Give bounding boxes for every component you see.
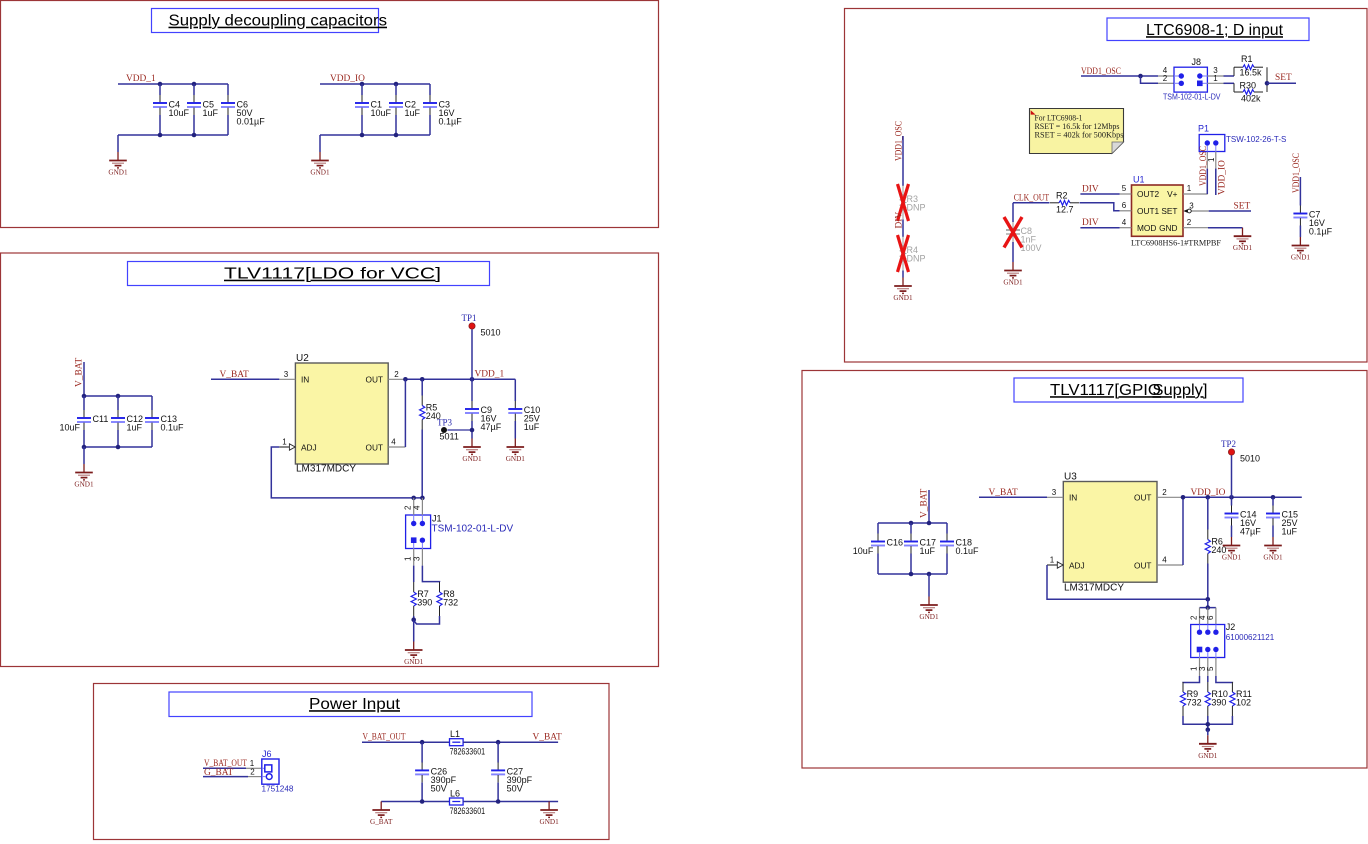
- svg-text:390: 390: [417, 598, 432, 608]
- pin 4 lead: [1198, 608, 1208, 625]
- wire pin2: [203, 776, 248, 778]
- capacitor C6 50V 0.01µF: [221, 84, 265, 135]
- title: TLV1117[GPIO Supply]: [1014, 378, 1243, 402]
- node junctions: [82, 394, 87, 399]
- svg-text:16.5k: 16.5k: [1240, 68, 1263, 78]
- svg-text:1uF: 1uF: [920, 546, 936, 556]
- svg-text:GND1: GND1: [1263, 554, 1283, 562]
- wire branch to pin 2: [1141, 76, 1159, 83]
- pin 2 lead: [248, 767, 262, 776]
- capacitor C3 16V 0.1µF: [423, 84, 462, 135]
- wire VDD1_OSC down: [1299, 177, 1301, 206]
- svg-text:L1: L1: [450, 729, 460, 739]
- wire bottom bus: [118, 134, 228, 136]
- pin 1 V+: [1183, 184, 1208, 194]
- resistor R1 16.5k: [1234, 54, 1263, 78]
- svg-text:DNP: DNP: [907, 203, 926, 213]
- capacitor C1 10uF: [355, 84, 392, 135]
- svg-text:V_BAT: V_BAT: [989, 488, 1018, 498]
- test point TP3 5011: [437, 418, 459, 442]
- svg-text:0.1uF: 0.1uF: [161, 423, 185, 433]
- wire VDD_IO net: [1183, 496, 1302, 498]
- svg-text:1uF: 1uF: [127, 423, 143, 433]
- pin 4 lead: [1158, 66, 1174, 76]
- wire pin1 to R7: [413, 566, 415, 582]
- wire to ground: [902, 271, 904, 278]
- title: LTC6908-1; D input: [1107, 18, 1309, 41]
- inductor L6 782633601: [450, 789, 486, 817]
- region box: TLV1117 GPIO Supply: [802, 371, 1367, 769]
- capacitor C18 0.1uF: [940, 523, 979, 574]
- svg-text:RSET = 402k for 500Kbps: RSET = 402k for 500Kbps: [1035, 130, 1124, 140]
- svg-text:TSM-102-01-L-DV: TSM-102-01-L-DV: [432, 524, 514, 535]
- svg-text:1: 1: [1213, 74, 1218, 83]
- pin 2 lead: [1190, 608, 1200, 625]
- svg-text:MOD: MOD: [1137, 223, 1156, 233]
- svg-text:1: 1: [282, 438, 287, 447]
- svg-text:6: 6: [1122, 201, 1127, 210]
- svg-text:10uF: 10uF: [853, 546, 874, 556]
- svg-text:1751248: 1751248: [262, 785, 295, 794]
- wire VDD1_OSC down: [902, 136, 904, 186]
- svg-text:V_BAT_OUT: V_BAT_OUT: [363, 733, 406, 743]
- svg-text:0.01µF: 0.01µF: [237, 116, 266, 126]
- svg-text:TSM-102-01-L-DV: TSM-102-01-L-DV: [1163, 93, 1221, 102]
- svg-text:0.1uF: 0.1uF: [956, 546, 980, 556]
- capacitor C26 390pF: [415, 742, 457, 801]
- resistor R2 12.7: [1050, 191, 1079, 215]
- capacitor C9 47uF: [465, 379, 502, 438]
- svg-text:0.1µF: 0.1µF: [439, 116, 463, 126]
- wire pin1 jog to R9: [1183, 676, 1200, 683]
- svg-text:VDD_IO: VDD_IO: [1191, 488, 1226, 498]
- wire bottom right: [463, 801, 558, 803]
- capacitor C27 390pF: [491, 742, 533, 801]
- pin 1 lead: [404, 549, 414, 566]
- pin 1 lead: [246, 759, 262, 768]
- ground GND1: [1003, 262, 1023, 287]
- pin 2 OUT lead: [388, 370, 405, 379]
- svg-text:U3: U3: [1064, 472, 1077, 483]
- svg-text:V_BAT: V_BAT: [920, 489, 930, 518]
- svg-text:OUT: OUT: [1134, 493, 1152, 503]
- svg-text:OUT: OUT: [365, 375, 383, 385]
- svg-text:4: 4: [412, 505, 421, 510]
- svg-text:OUT1: OUT1: [1137, 206, 1160, 216]
- svg-text:3: 3: [1189, 202, 1194, 211]
- region box: Power Input: [94, 684, 610, 840]
- svg-text:402k: 402k: [1241, 94, 1261, 104]
- connector J1 TSM-102-01-L-DV: [406, 514, 514, 549]
- wire GND pin2: [1208, 227, 1243, 229]
- svg-text:OUT: OUT: [365, 443, 383, 453]
- wire TP3 tap: [447, 429, 472, 431]
- capacitor C4 10uF: [153, 84, 190, 135]
- svg-text:0.1µF: 0.1µF: [1309, 227, 1333, 237]
- svg-text:G_BAT: G_BAT: [370, 818, 393, 826]
- pin 2 GND: [1183, 218, 1208, 228]
- wire ground stem: [1207, 730, 1209, 736]
- pin 1 ADJ lead: [1047, 556, 1063, 569]
- svg-text:5: 5: [1122, 184, 1127, 193]
- resistor R8 732: [437, 582, 458, 616]
- capacitor C5 1uF: [187, 84, 219, 135]
- wire P1 pin2 dangling: [1215, 152, 1217, 196]
- wire pin3 jog to R8: [422, 566, 439, 582]
- test point TP2 5010: [1221, 439, 1260, 464]
- connector J6 1751248: [262, 749, 295, 794]
- wire ground stem: [117, 135, 119, 152]
- regulator U3 LM317MDCY: [1063, 472, 1157, 594]
- svg-text:5010: 5010: [1240, 454, 1260, 464]
- resistor R10 390: [1205, 676, 1228, 716]
- pin 2 OUT lead: [1157, 488, 1183, 497]
- svg-text:10uF: 10uF: [60, 423, 81, 433]
- node junction top: [360, 82, 365, 87]
- svg-text:1uF: 1uF: [405, 108, 421, 118]
- svg-text:5010: 5010: [481, 328, 501, 338]
- wire corner into C10: [514, 379, 516, 401]
- svg-text:782633601: 782633601: [450, 806, 486, 816]
- ground GND1: [310, 152, 330, 177]
- svg-text:3: 3: [412, 556, 421, 561]
- svg-text:VDD1_OSC: VDD1_OSC: [1199, 146, 1209, 186]
- title: Supply decoupling capacitors: [152, 9, 379, 33]
- pin 5 lead: [1206, 658, 1216, 677]
- wire V_BAT to IN: [979, 496, 1047, 498]
- region box: Supply decoupling capacitors: [1, 1, 659, 228]
- svg-text:47µF: 47µF: [1240, 527, 1261, 537]
- wire V_BAT stem: [928, 490, 930, 523]
- svg-text:1: 1: [1050, 556, 1055, 565]
- wire center to node: [1207, 716, 1209, 730]
- svg-text:GND1: GND1: [1291, 254, 1311, 262]
- ground GND1 under C15: [1263, 537, 1283, 562]
- svg-text:ADJ: ADJ: [301, 443, 317, 453]
- ground GND1: [108, 152, 128, 177]
- svg-text:R30: R30: [1240, 81, 1257, 91]
- node junction bottom: [360, 133, 365, 138]
- test point TP1 5010: [462, 313, 501, 338]
- inductor L1 782633601: [450, 729, 486, 757]
- svg-text:390: 390: [1211, 698, 1226, 708]
- svg-text:VDD_1: VDD_1: [126, 74, 156, 84]
- svg-text:GND1: GND1: [404, 658, 424, 666]
- node junction bottom: [158, 133, 163, 138]
- svg-text:V_BAT: V_BAT: [533, 733, 562, 743]
- svg-text:Power Input: Power Input: [309, 696, 401, 713]
- svg-text:Supply]: Supply]: [1153, 382, 1208, 399]
- wire pin5 jog to R11: [1216, 676, 1233, 683]
- capacitor C14 47uF: [1225, 497, 1262, 537]
- pin 6 lead: [1206, 608, 1216, 625]
- ground GND1: [540, 802, 560, 827]
- svg-text:TP2: TP2: [1221, 439, 1236, 449]
- svg-text:DIV: DIV: [1082, 184, 1099, 194]
- svg-text:1: 1: [1187, 184, 1192, 193]
- wire bottom bus: [878, 573, 947, 575]
- svg-text:50V: 50V: [507, 783, 523, 793]
- svg-text:50V: 50V: [431, 783, 447, 793]
- ground GND1: [74, 464, 94, 489]
- svg-text:1uF: 1uF: [203, 108, 219, 118]
- svg-text:2: 2: [250, 767, 255, 776]
- svg-text:5: 5: [1206, 666, 1215, 671]
- svg-text:C11: C11: [93, 414, 109, 424]
- ground GND1: [404, 642, 424, 667]
- pin 3 IN lead: [279, 370, 295, 379]
- svg-text:ADJ: ADJ: [1069, 561, 1085, 571]
- svg-text:3: 3: [1052, 488, 1057, 497]
- svg-text:SET: SET: [1275, 73, 1292, 83]
- svg-text:GND1: GND1: [74, 481, 94, 489]
- wire bottom left: [381, 801, 449, 803]
- pin 4 MOD: [1120, 218, 1132, 228]
- capacitor C7 0.1uF: [1293, 206, 1332, 238]
- svg-text:TP1: TP1: [462, 313, 477, 323]
- wire tie bar: [1200, 607, 1216, 609]
- svg-text:3: 3: [284, 370, 289, 379]
- pin 3 SET with bubble: [1183, 202, 1208, 213]
- DNP cross R3: [898, 184, 909, 221]
- svg-text:TLV1117[GPIO: TLV1117[GPIO: [1050, 382, 1161, 399]
- wire C8 to ground: [1012, 242, 1014, 262]
- svg-text:J6: J6: [262, 749, 272, 759]
- svg-text:R2: R2: [1056, 191, 1068, 201]
- svg-text:V_BAT: V_BAT: [220, 370, 249, 380]
- pin 3 IN lead: [1047, 488, 1063, 497]
- svg-text:5011: 5011: [440, 432, 459, 442]
- svg-text:GND1: GND1: [919, 613, 939, 621]
- svg-text:2: 2: [1162, 488, 1167, 497]
- svg-text:TP3: TP3: [437, 418, 453, 428]
- DNP cross C8: [1004, 217, 1022, 248]
- ground GND1: [893, 278, 913, 303]
- wire top bus: [84, 395, 152, 397]
- resistor R30 402k: [1234, 81, 1263, 104]
- svg-text:IN: IN: [1069, 493, 1077, 503]
- svg-text:SET: SET: [1234, 202, 1251, 212]
- region box: LTC6908-1 D input: [845, 9, 1368, 363]
- wire SET net: [1209, 210, 1251, 212]
- connector P1 TSW-102-26-T-S: [1198, 124, 1286, 152]
- svg-text:DIV: DIV: [1082, 218, 1099, 228]
- svg-text:TLV1117[LDO for VCC]: TLV1117[LDO for VCC]: [224, 266, 441, 283]
- svg-text:61000621121: 61000621121: [1226, 633, 1275, 642]
- pin 3 lead: [1207, 66, 1223, 76]
- pin 3 lead: [1198, 658, 1208, 677]
- resistor R4 DNP (not fitted): [900, 237, 925, 271]
- svg-text:U1: U1: [1133, 175, 1145, 185]
- svg-text:L6: L6: [450, 789, 460, 799]
- svg-text:IN: IN: [301, 375, 309, 385]
- svg-text:12.7: 12.7: [1056, 205, 1074, 215]
- resistor R11 102: [1230, 682, 1252, 716]
- svg-text:R1: R1: [1241, 54, 1253, 64]
- node junction top: [158, 82, 163, 87]
- svg-text:47µF: 47µF: [481, 422, 502, 432]
- wire down to C8: [1012, 203, 1014, 222]
- wire TP2 stem: [1231, 455, 1233, 497]
- pin 6 OUT1: [1120, 201, 1132, 211]
- ground GND1 under C9: [462, 439, 482, 464]
- svg-text:240: 240: [1211, 545, 1226, 555]
- wire VDD1_OSC to J8: [1081, 75, 1158, 77]
- svg-text:2: 2: [404, 505, 413, 510]
- wire ground stem: [928, 574, 930, 597]
- wire ADJ feedback: [271, 447, 422, 498]
- pin 2 lead: [404, 498, 414, 515]
- svg-text:J2: J2: [1226, 622, 1236, 632]
- ground GND1 under C14: [1222, 537, 1242, 562]
- resistor R9 732: [1180, 682, 1201, 716]
- connector J8 TSM-102-01-L-DV: [1163, 57, 1221, 102]
- capacitor C13 0.1uF: [145, 396, 184, 447]
- wire R7 bottom: [413, 616, 415, 620]
- capacitor C2 1uF: [389, 84, 421, 135]
- pin 1 ADJ lead: [279, 438, 295, 451]
- title: Power Input: [169, 692, 532, 717]
- svg-text:GND1: GND1: [540, 818, 560, 826]
- svg-text:4: 4: [1162, 556, 1167, 565]
- svg-text:102: 102: [1236, 698, 1251, 708]
- capacitor C16 10uF: [853, 523, 903, 574]
- svg-text:GND1: GND1: [506, 455, 526, 463]
- svg-text:J1: J1: [432, 514, 442, 524]
- svg-text:V_BAT: V_BAT: [75, 358, 85, 387]
- wire R2 to OUT1: [1080, 203, 1120, 211]
- wire ground stem: [319, 135, 321, 152]
- wire DIV pin5: [1080, 193, 1119, 195]
- svg-text:J8: J8: [1192, 57, 1202, 67]
- pin 3 lead: [412, 549, 422, 566]
- svg-text:6: 6: [1206, 615, 1215, 620]
- pin 2 lead: [1158, 74, 1174, 83]
- ground GND1: [1233, 228, 1253, 253]
- svg-text:OUT: OUT: [1134, 561, 1152, 571]
- svg-text:V+: V+: [1167, 189, 1178, 199]
- svg-text:DIV: DIV: [895, 212, 905, 229]
- region box: TLV1117 LDO for VCC: [1, 253, 659, 667]
- svg-text:GND1: GND1: [1233, 244, 1253, 252]
- svg-text:DNP: DNP: [907, 254, 926, 264]
- wire CLK_OUT: [1013, 202, 1050, 204]
- wire pin1 to R30: [1224, 82, 1235, 84]
- ground GND1 under C10: [506, 439, 526, 464]
- ground G_BAT: [370, 802, 393, 827]
- svg-text:1uF: 1uF: [524, 422, 540, 432]
- svg-text:GND1: GND1: [1003, 279, 1023, 287]
- DNP cross R4: [898, 235, 909, 272]
- resistor R3 DNP (not fitted): [900, 186, 925, 220]
- svg-text:VDD_IO: VDD_IO: [330, 74, 365, 84]
- wire V_BAT stem: [83, 362, 85, 396]
- svg-text:OUT2: OUT2: [1137, 189, 1160, 199]
- svg-text:CLK_OUT: CLK_OUT: [1014, 193, 1050, 203]
- svg-text:U2: U2: [296, 353, 309, 364]
- capacitor C12 1uF: [111, 396, 143, 447]
- svg-text:LM317MDCY: LM317MDCY: [296, 464, 356, 475]
- svg-text:2: 2: [1163, 74, 1168, 83]
- svg-text:4: 4: [391, 438, 396, 447]
- ground GND1: [1198, 735, 1218, 760]
- svg-text:TSW-102-26-T-S: TSW-102-26-T-S: [1226, 135, 1286, 144]
- svg-text:2: 2: [394, 370, 399, 379]
- svg-text:100V: 100V: [1021, 243, 1042, 253]
- wire pin3 to R1: [1224, 75, 1235, 77]
- svg-text:1: 1: [1207, 157, 1216, 162]
- capacitor C17 1uF: [904, 523, 936, 574]
- wire bottom bus: [84, 446, 152, 448]
- ground GND1: [1291, 237, 1311, 262]
- svg-text:P1: P1: [1198, 124, 1209, 134]
- svg-text:GND1: GND1: [893, 294, 913, 302]
- svg-text:Supply decoupling capacitors: Supply decoupling capacitors: [169, 13, 388, 30]
- wire pin1: [203, 767, 246, 769]
- wire to SET: [1267, 82, 1296, 84]
- svg-text:4: 4: [1122, 218, 1127, 227]
- ground GND1: [919, 597, 939, 622]
- wire top right: [463, 741, 558, 743]
- wire between R3 R4: [902, 220, 904, 238]
- wire ground stem: [413, 620, 415, 642]
- oscillator U1 LTC6908HS6-1#TRMPBF: [1131, 175, 1221, 248]
- svg-text:10uF: 10uF: [169, 108, 190, 118]
- wire V_BAT to IN: [211, 378, 279, 380]
- svg-text:782633601: 782633601: [450, 747, 486, 757]
- wire OUT net VDD_1: [405, 378, 515, 380]
- svg-text:GND1: GND1: [108, 169, 128, 177]
- capacitor C15 1uF: [1266, 497, 1298, 537]
- wire to J2 tie: [1207, 599, 1209, 607]
- svg-text:LTC6908HS6-1#TRMPBF: LTC6908HS6-1#TRMPBF: [1131, 238, 1221, 248]
- wire V+ up to P1: [1206, 152, 1208, 169]
- svg-text:VDD_IO: VDD_IO: [1218, 160, 1228, 195]
- wire top bus: [320, 83, 430, 85]
- svg-text:732: 732: [1187, 698, 1202, 708]
- svg-text:GND: GND: [1159, 223, 1177, 233]
- annotation note: [1030, 109, 1124, 154]
- pin 1 lead: [1207, 74, 1223, 83]
- title: TLV1117[LDO for VCC]: [128, 262, 490, 286]
- wire DIV pin4: [1080, 227, 1119, 229]
- wire R8 bottom corner: [414, 616, 440, 624]
- svg-text:LM317MDCY: LM317MDCY: [1064, 583, 1124, 594]
- wire top bus: [118, 83, 228, 85]
- wire R1/R30 right join: [1266, 67, 1268, 92]
- capacitor C11 10uF: [60, 396, 109, 447]
- pin 4 OUT lead: [1157, 556, 1183, 566]
- resistor R5 240: [420, 379, 441, 498]
- pin 4 OUT lead: [388, 438, 405, 448]
- svg-text:1: 1: [404, 556, 413, 561]
- wire bottom bus: [320, 134, 430, 136]
- svg-text:GND1: GND1: [310, 169, 330, 177]
- pin 4 lead: [412, 498, 422, 515]
- svg-text:GND1: GND1: [462, 455, 482, 463]
- capacitor C8 DNP 1nF 100V: [1006, 222, 1042, 253]
- connector J2 61000621121: [1191, 622, 1275, 658]
- wire top bus: [878, 522, 947, 524]
- wire bottom bus: [1183, 716, 1232, 724]
- svg-text:SET: SET: [1161, 206, 1177, 216]
- resistor R6 240: [1205, 497, 1226, 599]
- svg-text:1uF: 1uF: [1282, 527, 1298, 537]
- wire pin2 to pin4: [1182, 497, 1184, 565]
- wire ADJ feedback: [1047, 565, 1208, 599]
- wire TP1 stem: [471, 329, 473, 379]
- pin 5 OUT2: [1120, 184, 1132, 194]
